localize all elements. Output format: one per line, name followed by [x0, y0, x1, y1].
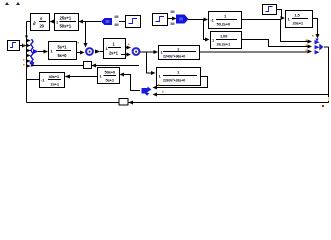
arrowhead into sum3 upper-right	[153, 86, 158, 90]
block J transfer fcn 1/(2240s^2+96s+0)	[159, 46, 200, 60]
block L transfer fcn 1/(2260s^2+26s+0)	[157, 68, 201, 86]
arrowhead into K	[205, 38, 210, 42]
wire sum3 output up into H	[124, 75, 140, 91]
block D transfer fcn 1.5/(20s+1)	[286, 11, 313, 28]
arrowhead into E	[44, 50, 49, 54]
svg-text:1.09: 1.09	[220, 34, 228, 39]
block G transfer fcn -1(40s+1)/(2s+1)	[40, 73, 65, 88]
label speck near tag2 upper	[171, 11, 175, 14]
svg-text:59s+0: 59s+0	[105, 70, 116, 75]
wire C output to sum4 upper-left	[241, 20, 308, 42]
wire K output to sum4 middle-left	[242, 40, 308, 47]
wire A output (left side to V1)	[27, 21, 31, 23]
arrowhead down into sum4 top	[316, 34, 320, 39]
label speck near tag2 lower	[171, 23, 175, 26]
goto tag1 (blue, points left)	[101, 18, 112, 25]
arrowhead into tag2	[172, 17, 177, 21]
svg-text:2260s²+26s+0: 2260s²+26s+0	[163, 79, 185, 83]
arrowhead J into sum4	[308, 50, 313, 54]
version red dot bottom right	[322, 105, 324, 107]
wire sum2 output to J	[140, 51, 154, 53]
wire E output into sum1	[77, 52, 81, 54]
sum1 (blue junction)	[78, 42, 93, 55]
svg-text:40s+1: 40s+1	[49, 74, 60, 79]
wire step4 stub	[20, 45, 23, 47]
wire I output into sum2	[126, 47, 127, 49]
sum3 (blue junction bottom)	[142, 84, 164, 96]
label speck near tag1 lower	[115, 24, 119, 27]
arrowhead down into sum1 top	[84, 43, 88, 48]
wire D output to sum4 top	[313, 19, 318, 35]
wire step2 stub (right)	[167, 18, 172, 20]
arrowhead into B right edge	[79, 20, 84, 24]
step block 4 (left source port)	[8, 41, 20, 51]
annotation mark 2 (top-left tiny triangle)	[16, 2, 20, 5]
block B transfer fcn 25s+1/50s+1	[55, 14, 79, 31]
arrowhead I into sum2	[127, 46, 132, 50]
wire H output into G	[70, 76, 97, 78]
arrowhead C into sum4	[308, 40, 313, 44]
arrowhead K into sum4	[308, 45, 313, 49]
wire V1 (left feedback vertical x=26.5, y=21.5..102.5)	[26, 22, 28, 103]
arrowhead into tagA	[92, 64, 97, 68]
arrowhead into G right edge	[65, 75, 71, 79]
wire step1 stub (left)	[119, 21, 125, 23]
svg-text:20s+1: 20s+1	[293, 21, 304, 26]
step block 3 (source, top right)	[263, 5, 277, 15]
svg-text:50s+1: 50s+1	[60, 24, 72, 29]
arrowhead into sum3 lower-right	[153, 93, 158, 97]
goto tag2 (blue, points right)	[176, 15, 189, 24]
arrowhead into sum1 left	[80, 51, 85, 55]
arrowhead into A right edge	[50, 20, 55, 24]
arrowhead lower into sum2	[127, 53, 132, 57]
arrowhead into J	[154, 50, 159, 54]
wire tag2 output (y=19.5)	[188, 19, 204, 21]
annotation mark 1 (top-left tiny triangle)	[5, 2, 9, 5]
wire sum1 to I	[100, 51, 103, 53]
svg-text:26.2s+1: 26.2s+1	[217, 42, 231, 47]
from tagA (small box on wire)	[84, 62, 92, 69]
block K transfer fcn 1.09/(26.2s+1)	[211, 32, 242, 49]
sum2 (blue junction)	[128, 44, 139, 55]
svg-text:2240s²+96s+0: 2240s²+96s+0	[163, 55, 185, 59]
svg-text:25s+1: 25s+1	[60, 16, 72, 21]
wire G output to V1	[27, 79, 40, 81]
arrowhead step4 into mux	[22, 44, 27, 48]
wire J output to sum4 lower-left	[200, 51, 308, 53]
wire mux output to E	[38, 51, 44, 53]
svg-text:50.2s+0: 50.2s+0	[217, 22, 231, 27]
block C transfer fcn -1/(50.2s+0)	[209, 12, 242, 29]
sum4 (blue junction right)	[306, 35, 324, 54]
arrowhead into D	[281, 16, 286, 20]
block H transfer fcn (59s+0)/(5s+1)	[98, 68, 120, 84]
wire bottom H1 (y=102.5, full width)	[27, 102, 329, 104]
wire V2 (right vertical from sum4 output down)	[328, 47, 330, 103]
wire L output loop into sum3 upper	[157, 77, 208, 88]
from tagB (small box on bottom wire H1)	[119, 99, 128, 106]
junction mark yellow on V2	[328, 97, 329, 101]
mux (blue, left) with input arrows	[23, 36, 39, 68]
wire branch down to K (x=203.5)	[204, 20, 206, 40]
wire branch down to sum1 (x=85.5)	[85, 22, 87, 44]
block E transfer fcn (5s+1)/(5s+0)	[49, 42, 77, 60]
wire mux-return (y=65.5 with tagA)	[31, 65, 139, 67]
svg-text:2s+1: 2s+1	[109, 51, 119, 56]
wire step3 stub into D	[276, 10, 282, 18]
wire stub sum2 lower input	[121, 54, 127, 56]
label speck near tag1 upper	[115, 16, 119, 19]
step block 1 (source, flipped)	[126, 16, 141, 28]
wire sum4 output	[324, 46, 329, 48]
block I transfer fcn 1/(2s+1)	[104, 39, 126, 59]
arrowhead into C	[204, 18, 209, 22]
step block 2 (source)	[153, 14, 168, 26]
svg-text:5s+1: 5s+1	[58, 45, 68, 50]
svg-text:5s+1: 5s+1	[106, 78, 115, 83]
svg-text:2s+1: 2s+1	[51, 82, 60, 87]
block A transfer fcn s/20	[31, 14, 50, 31]
wire H2 (y=94.5 long wire into sum3 lower input)	[157, 94, 329, 96]
sum1 output arrow	[95, 50, 101, 54]
wire branch down to L (x=146.5)	[147, 52, 152, 73]
svg-text:5s+0: 5s+0	[58, 53, 68, 58]
wire tag1 to B (y=21.5)	[83, 21, 101, 23]
arrowhead into tagB	[129, 101, 134, 105]
arrowhead into L	[151, 71, 156, 75]
arrowhead into H right edge	[120, 73, 125, 77]
